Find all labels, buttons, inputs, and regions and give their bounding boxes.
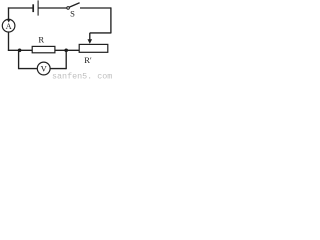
wire main row left (ammeter to resistor) (8, 49, 32, 51)
svg-text:A: A (6, 22, 12, 31)
svg-text:R: R (38, 35, 44, 45)
junction node right (64, 49, 68, 53)
svg-text:sanfen5. com: sanfen5. com (52, 72, 112, 80)
voltmeter V1 circle (37, 62, 50, 75)
wire top-left vertical down to ammeter (8, 7, 10, 19)
current arrowhead into ammeter (7, 19, 11, 23)
slider shaft (89, 33, 91, 40)
svg-text:R′: R′ (84, 55, 92, 65)
svg-text:S: S (70, 9, 75, 19)
switch S blade (69, 3, 79, 7)
battery B1 long plate (37, 0, 39, 15)
switch S terminal circle (67, 7, 70, 10)
resistor R body (32, 46, 55, 52)
wire ammeter down to main row (8, 32, 10, 51)
wire right vertical (110, 7, 112, 33)
wire voltmeter branch left vertical (18, 50, 20, 69)
junction node left (18, 49, 22, 53)
wire to slider (90, 32, 112, 34)
wire switch to top-right corner (80, 7, 111, 9)
slider arrowhead of rheostat (88, 39, 93, 44)
svg-text:V: V (41, 64, 48, 74)
ammeter A1 circle (2, 19, 15, 32)
battery B1 short plate (32, 4, 34, 12)
wire voltmeter branch right horizontal (50, 68, 66, 70)
wire voltmeter branch left horizontal (19, 68, 38, 70)
wire top-left horizontal to battery (8, 7, 33, 9)
wire battery to switch (38, 7, 67, 9)
wire main row right (resistor to rheostat) (55, 49, 80, 51)
wire voltmeter branch right vertical (65, 50, 67, 69)
rheostat R' body (79, 44, 108, 52)
